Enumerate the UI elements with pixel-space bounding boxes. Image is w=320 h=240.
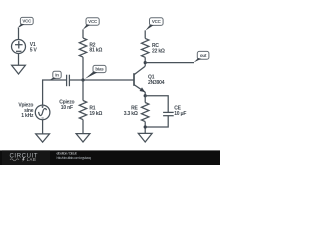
resistor R2 — [79, 38, 86, 57]
capacitor Cpiezo — [67, 75, 70, 87]
value label Vpiezo sine 1 kHz — [18, 103, 34, 119]
wire V1 minus to ground — [18, 54, 20, 66]
svg-text:3.3 kΩ: 3.3 kΩ — [124, 111, 138, 117]
svg-text:22 kΩ: 22 kΩ — [152, 48, 165, 54]
svg-text:1 kHz: 1 kHz — [21, 113, 34, 119]
svg-text:10 μF: 10 μF — [174, 111, 186, 117]
svg-text:VCC: VCC — [88, 19, 98, 24]
voltage source V1 — [12, 40, 26, 54]
net flag VCC (above V1) — [17, 17, 33, 28]
net flag in — [49, 71, 61, 80]
node bias junction — [81, 78, 84, 81]
wire bias node to Q1 base — [83, 79, 134, 81]
value label V1 5 V — [30, 42, 38, 53]
svg-text:htto:/∕circuitlab.com/crgvkacq: htto:/∕circuitlab.com/crgvkacq — [57, 156, 92, 160]
wire Vpiezo top to in node corner — [43, 80, 50, 105]
node emitter-ground junction — [144, 125, 147, 128]
resistor R1 — [79, 101, 86, 120]
voltage source Vpiezo — [35, 105, 50, 120]
svg-text:10 nF: 10 nF — [61, 105, 73, 111]
wire RE bottom to ground node — [144, 122, 146, 134]
ground (under Vpiezo) — [36, 134, 50, 142]
svg-text:19 kΩ: 19 kΩ — [89, 111, 102, 117]
wire emitter node to CE branch — [145, 96, 168, 113]
svg-text:5 V: 5 V — [30, 47, 38, 53]
node collector junction — [144, 61, 147, 64]
node emitter junction — [144, 94, 147, 97]
svg-text:bias: bias — [95, 67, 104, 72]
svg-text:in: in — [55, 72, 59, 77]
wire VCC flag to R2 top — [82, 29, 84, 38]
resistor RC — [142, 38, 149, 57]
wire Vpiezo bottom to ground — [42, 120, 44, 134]
wire in node to Cpiezo left — [49, 79, 67, 81]
value label Q1 2N3904 — [148, 74, 165, 86]
svg-text:2N3904: 2N3904 — [148, 80, 165, 86]
wire collector node to out flag — [145, 62, 194, 64]
value label RE 3.3 kOhm — [124, 105, 139, 117]
svg-text:VCC: VCC — [152, 19, 162, 24]
wire VCC flag to V1 plus — [18, 28, 20, 40]
resistor RE — [142, 103, 149, 122]
wire CE bottom to ground node — [145, 116, 168, 127]
svg-text:elbortion / Circuit: elbortion / Circuit — [57, 152, 77, 156]
net flag out — [194, 51, 209, 62]
net flag bias — [85, 65, 106, 79]
svg-text:LAB: LAB — [27, 157, 37, 162]
value label R1 19 kOhm — [89, 105, 102, 116]
net flag VCC (above RC) — [145, 18, 163, 31]
watermark bar — [0, 150, 220, 165]
wire RC bottom to collector node — [144, 57, 146, 66]
value label CE 10 uF — [174, 106, 186, 117]
wire Cpiezo right to bias node — [69, 79, 83, 81]
wire VCC flag to RC top — [144, 30, 146, 38]
ground (under R1) — [76, 134, 90, 142]
net flag VCC (above R2) — [83, 18, 99, 30]
svg-text:VCC: VCC — [22, 19, 32, 24]
svg-text:out: out — [200, 53, 207, 58]
transistor Q1 2N3904 — [134, 66, 145, 96]
value label Cpiezo 10 nF — [59, 99, 74, 110]
value label R2 81 kOhm — [89, 42, 102, 53]
wire R1 bottom to ground — [82, 120, 84, 134]
capacitor CE — [163, 112, 174, 115]
ground (under RE/CE) — [138, 133, 152, 142]
wire R2 bottom to bias node — [82, 57, 84, 80]
wire bias node to R1 top — [82, 80, 84, 101]
wire emitter node to RE top — [144, 96, 146, 103]
svg-text:81 kΩ: 81 kΩ — [89, 48, 102, 54]
value label RC 22 kOhm — [152, 43, 165, 55]
ground (under V1) — [12, 65, 26, 74]
